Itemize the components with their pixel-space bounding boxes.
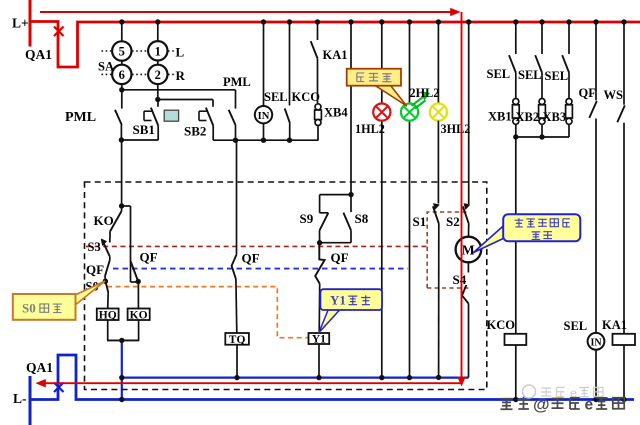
svg-text:5: 5 — [119, 45, 125, 59]
wire PML left to node B — [120, 125, 122, 140]
wire S4 to blue return — [468, 304, 470, 378]
wire Y1 coil bottom — [318, 344, 320, 378]
wire blue control return bus — [122, 377, 469, 379]
lamp 1HL2 (red) — [373, 104, 390, 121]
contact KO (normally-open interlock) — [121, 206, 123, 211]
svg-text:KA1: KA1 — [602, 318, 627, 332]
svg-text:S2: S2 — [446, 214, 460, 229]
wire bus to lamp 1HL2 and down to return — [381, 22, 383, 378]
wire node D down to QF contact — [236, 140, 238, 254]
svg-text:KO: KO — [94, 213, 114, 228]
coil TQ — [225, 333, 249, 345]
lamp 3HL2 (yellow) — [430, 104, 447, 121]
svg-text:SB2: SB2 — [184, 124, 206, 139]
node W junction — [593, 397, 598, 402]
node on bus at S2 feed — [466, 19, 471, 24]
svg-text:6: 6 — [119, 68, 125, 82]
wire 3HL2 to S1 — [437, 121, 439, 204]
svg-text:L: L — [176, 45, 185, 60]
breaker QA1 cross mark — [54, 27, 64, 37]
svg-text:M: M — [462, 242, 475, 257]
svg-text:e: e — [585, 397, 594, 414]
wire node B down into box — [121, 140, 123, 206]
svg-text:Y1: Y1 — [330, 293, 346, 308]
svg-text:L-: L- — [13, 391, 27, 406]
node C junction — [155, 97, 160, 102]
node Q junction — [379, 375, 384, 380]
svg-text:QF: QF — [331, 250, 349, 265]
connector XB4 — [317, 58, 319, 103]
svg-text:IN: IN — [590, 337, 602, 348]
svg-text:XB2: XB2 — [516, 110, 540, 124]
wire QF to TQ coil — [235, 279, 238, 333]
wire split to S9 — [320, 194, 351, 196]
callout "charging spring stretching" pointing to motor M — [474, 226, 504, 253]
node E junction (IN bottom) — [261, 138, 266, 143]
watermark (light) — [523, 385, 536, 398]
coil KA1 — [613, 334, 636, 345]
contact SEL (XB1 branch) — [515, 22, 517, 54]
svg-text:3HL2: 3HL2 — [441, 122, 471, 136]
contact KA1 — [317, 22, 319, 40]
svg-text:KCO: KCO — [292, 90, 321, 104]
svg-text:2HL2: 2HL2 — [410, 86, 440, 100]
wire SA6 to node A — [121, 84, 123, 90]
node S0 junction — [103, 279, 108, 284]
wire bus to SA contact 1 — [157, 22, 159, 41]
svg-text:PML: PML — [223, 75, 251, 89]
indicator block (teal) — [164, 110, 178, 121]
node B junction — [119, 137, 124, 142]
travel contact S1 with actuator arrow — [434, 204, 440, 210]
svg-text:R: R — [176, 68, 186, 83]
node X junction — [621, 397, 626, 402]
wire SA 5-6 link — [121, 55, 123, 70]
wire SA 1-2 link — [157, 55, 159, 70]
svg-text:S8: S8 — [355, 211, 369, 226]
svg-text:SEL: SEL — [487, 67, 511, 81]
SA contact 1 — [148, 41, 167, 60]
SA linkage dotted line (row 6-2-R) — [102, 73, 112, 75]
node R junction — [407, 375, 412, 380]
node J junction (blue bus taps) — [119, 375, 124, 380]
orange dashed trace (S0 to Y1 path) — [107, 287, 308, 338]
node H junction — [136, 279, 141, 284]
wire bus feed to S9/S8 — [350, 22, 352, 195]
contact SEL (XB3 branch) — [568, 22, 570, 54]
svg-text:PML: PML — [65, 110, 96, 125]
watermark (dark) - toutiao @ dianggong e xuetang — [501, 399, 513, 410]
svg-text:SEL: SEL — [264, 90, 288, 104]
node T junction — [513, 134, 518, 139]
contact QF (top right) — [595, 22, 597, 100]
svg-text:S4: S4 — [453, 272, 467, 287]
motor M (spring charging) — [456, 237, 482, 263]
green arrow to 2HL2 label — [412, 96, 424, 105]
svg-text:QF: QF — [86, 262, 104, 277]
wire node C to SB2 — [158, 99, 213, 101]
svg-text:KCO: KCO — [487, 318, 516, 332]
dashed enclosure box (mechanism cabinet) — [85, 182, 487, 390]
node G junction — [119, 203, 124, 208]
pushbutton SB1 — [157, 100, 159, 107]
svg-text:XB1: XB1 — [488, 110, 512, 124]
svg-text:SEL: SEL — [564, 319, 588, 333]
contact WS — [623, 22, 625, 105]
wire SA2 to node C — [157, 84, 159, 99]
svg-text:1HL2: 1HL2 — [355, 122, 385, 136]
wire node B horizontal to SB1 — [121, 139, 158, 141]
node F junction (KCO bottom) — [287, 138, 292, 143]
svg-text:WS: WS — [604, 88, 624, 102]
contact KCO — [289, 22, 291, 106]
svg-text:SB1: SB1 — [133, 122, 155, 137]
wire HQ coil bottom — [107, 320, 109, 340]
coil KCO — [505, 334, 527, 345]
wire XB1-XB3 common rail — [516, 136, 569, 138]
pushbutton SB2 — [212, 100, 214, 107]
wire rail down to KCO coil — [515, 137, 517, 334]
contact QF (TQ branch) — [232, 255, 237, 279]
connector XB2 — [541, 73, 543, 100]
svg-text:KO: KO — [130, 309, 148, 321]
svg-text:QF: QF — [242, 251, 260, 266]
connector XB3 — [568, 73, 570, 100]
wire SEL indicator to L- — [595, 350, 597, 400]
contact S9 — [319, 195, 321, 213]
contact QF closed (KO coil branch) — [131, 261, 139, 282]
svg-text:SEL: SEL — [518, 68, 542, 82]
svg-text:KA1: KA1 — [323, 48, 348, 62]
svg-text:XB3: XB3 — [543, 110, 567, 124]
wire red current path (right vertical) — [461, 12, 463, 379]
wire M to S4 — [467, 262, 469, 280]
svg-text:S3: S3 — [88, 240, 101, 254]
circuit breaker QA1 (top, drawout symbol on L+ bus) — [30, 22, 640, 68]
wire QF to Y1 coil — [318, 284, 321, 333]
node L+ supply lead — [29, 0, 32, 47]
bus junction dots — [119, 19, 124, 24]
svg-text:QA1: QA1 — [26, 360, 53, 375]
svg-text:QF: QF — [579, 86, 597, 100]
wire KA1 coil to L- — [623, 345, 625, 400]
breaker QA1 cross mark (bottom) — [54, 383, 64, 393]
indicator SEL lamp IN (bottom) — [588, 333, 605, 350]
node N junction (S9/S8 join) — [317, 240, 322, 245]
node L- return lead — [29, 376, 32, 425]
node D junction (PML right bottom) — [233, 138, 238, 143]
contact PML (right) — [235, 90, 237, 109]
svg-text:2: 2 — [155, 68, 161, 82]
node M1 junction (S9/S8 split) — [348, 192, 353, 197]
lamp 2HL2 (green) — [401, 104, 418, 121]
callout "S0 closed" pointing to S0 — [74, 281, 105, 306]
wire bus to SA contact 5 — [121, 22, 123, 41]
wire red current path (top, with arrow) — [40, 11, 452, 13]
coil KO — [137, 282, 139, 309]
coil HQ — [97, 309, 119, 321]
contact QF (HQ branch) — [105, 260, 110, 276]
contact SEL (XB2 branch) — [541, 22, 543, 54]
SA contact 5 — [112, 41, 131, 60]
wire blue drop from HQ/KO coils to L- — [121, 340, 123, 399]
wire S8 to node N — [320, 242, 351, 244]
contact S4 — [462, 280, 469, 304]
svg-text:IN: IN — [258, 111, 270, 122]
SA contact 2 — [148, 65, 167, 84]
travel contact S3 with actuator arrow — [109, 238, 111, 243]
svg-text:S0: S0 — [22, 301, 36, 316]
node K junction — [234, 375, 239, 380]
svg-text:TQ: TQ — [229, 334, 246, 346]
wire SB2 bottom rail — [213, 139, 318, 141]
circuit breaker QA1 (bottom, drawout symbol on L- bus) — [30, 355, 634, 400]
node P junction — [316, 375, 321, 380]
wire red current path (bottom, arrow to L-) — [43, 382, 462, 384]
svg-text:QF: QF — [140, 250, 158, 265]
dark-red dashed trace (S3 path) — [86, 245, 427, 247]
label S4 — [453, 273, 473, 286]
wire bus to S2 — [468, 22, 470, 204]
wire coil common (HQ+KO) — [107, 339, 139, 341]
svg-text:XB4: XB4 — [324, 106, 348, 120]
svg-text:S1: S1 — [413, 214, 427, 229]
SA contact 6 — [112, 65, 131, 84]
wire node G to KO coil branch — [122, 205, 131, 207]
SA linkage dotted line (row 5-1-L) — [102, 50, 112, 52]
node S junction — [436, 375, 441, 380]
wire bus to lamp 3HL2 — [437, 22, 439, 104]
contact S8 — [350, 195, 352, 213]
svg-text:L+: L+ — [12, 16, 29, 31]
node U junction — [539, 134, 544, 139]
connector XB1 — [515, 73, 517, 100]
travel contact S2 with actuator arrow — [464, 204, 470, 210]
wire KCO coil to L- — [515, 345, 517, 400]
wire node A to PML right branch — [122, 89, 236, 91]
wire bus to lamp 2HL2 and down to return — [409, 22, 411, 378]
svg-text:SEL: SEL — [545, 69, 569, 83]
wire TQ coil bottom — [236, 345, 238, 378]
dark-red dashed outline around S1 S2 M S4 — [427, 212, 468, 288]
svg-text:S9: S9 — [300, 211, 314, 226]
indicator SEL lamp IN (top) — [263, 22, 265, 106]
svg-text:Y1: Y1 — [312, 334, 326, 346]
contact QF (Y1 branch) — [315, 243, 324, 284]
node V junction — [513, 397, 518, 402]
contact PML (left) — [121, 90, 123, 109]
svg-text:@: @ — [533, 395, 550, 414]
coil Y1 — [309, 333, 330, 344]
svg-text:SA: SA — [98, 60, 114, 74]
callout "Y1 energized" pointing to Y1 coil — [319, 309, 341, 333]
node A junction — [119, 87, 124, 92]
wire KO coil bottom — [138, 320, 140, 340]
node I junction to blue drop — [119, 338, 124, 343]
svg-text:QA1: QA1 — [25, 47, 52, 62]
contact S0 — [105, 281, 108, 292]
svg-text:1: 1 — [155, 44, 161, 58]
blue dashed trace (QF contacts path) — [113, 268, 408, 270]
svg-text:HQ: HQ — [99, 309, 117, 321]
callout "green lamp on" pointing to 2HL2 — [374, 85, 407, 106]
